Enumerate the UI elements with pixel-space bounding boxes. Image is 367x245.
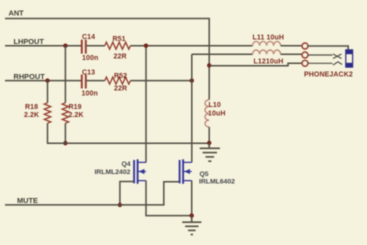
wire L12 to pin2 bbox=[281, 53, 302, 56]
wire R19 to rail bbox=[64, 123, 66, 143]
wire Q5 drain column vertical bbox=[191, 54, 193, 162]
wire Q5 source down bbox=[191, 181, 193, 216]
svg-text:100n: 100n bbox=[82, 91, 98, 98]
node junction dot sources/ground bbox=[190, 213, 194, 217]
svg-text:R52: R52 bbox=[114, 73, 127, 80]
wire L10 bottom to ground junction bbox=[208, 127, 210, 143]
svg-text:R19: R19 bbox=[69, 104, 82, 111]
wire pin2 switch contact bbox=[308, 54, 342, 59]
svg-text:22R: 22R bbox=[114, 85, 127, 92]
wire RHPOUT to C13 bbox=[5, 80, 81, 82]
svg-text:2.2K: 2.2K bbox=[24, 112, 39, 119]
wire Q4 source to ground junction bbox=[146, 162, 192, 215]
wire ANT horizontal + vertical down to L10 bbox=[5, 19, 209, 100]
svg-text:RHPOUT: RHPOUT bbox=[14, 72, 46, 81]
svg-text:Q4: Q4 bbox=[122, 161, 131, 168]
node junction dot LHPOUT/R19 bbox=[63, 44, 67, 48]
transistor Q4 IRLML2402 bbox=[95, 159, 147, 184]
resistor R51 bbox=[105, 42, 131, 49]
node junction dot MUTE/Q4 gate bbox=[118, 203, 122, 207]
node junction dot R19/rail bbox=[63, 141, 67, 145]
node junction dot rail/L10/ground bbox=[207, 141, 211, 145]
svg-text:L10: L10 bbox=[209, 102, 221, 109]
capacitor C13 bbox=[82, 75, 86, 89]
svg-text:L11 10uH: L11 10uH bbox=[253, 35, 285, 42]
svg-text:IRLML2402: IRLML2402 bbox=[95, 169, 131, 176]
ground under L10 bbox=[200, 143, 220, 161]
wire Q4 drain column from LHPOUT bbox=[145, 46, 147, 163]
wire Q4 gate lead to MUTE bbox=[120, 182, 134, 205]
node junction dot on ANT vertical at sleeve wire bbox=[207, 63, 211, 67]
wire LHPOUT down to R19 bbox=[64, 46, 66, 103]
svg-text:22R: 22R bbox=[114, 53, 127, 60]
svg-text:L1210uH: L1210uH bbox=[254, 59, 284, 66]
wire L11 to pin1 bbox=[281, 45, 302, 47]
svg-text:2.2K: 2.2K bbox=[69, 112, 84, 119]
svg-text:Q5: Q5 bbox=[200, 171, 209, 178]
wire R52 to Q5 drain column bbox=[130, 80, 191, 82]
phone jack PHONEJACK2 plug bar bbox=[346, 50, 353, 67]
svg-text:R18: R18 bbox=[25, 104, 38, 111]
wire C13 to R52 bbox=[87, 80, 105, 82]
wire C14 to R51 bbox=[87, 45, 105, 47]
capacitor C14 bbox=[82, 40, 86, 54]
wire R51 to L11 bbox=[130, 45, 252, 47]
resistor R52 bbox=[105, 77, 131, 84]
resistor R19 bbox=[62, 103, 68, 123]
wire pin3 switch contact bbox=[308, 62, 342, 65]
node junction dot LHPOUT/Q4 bbox=[144, 44, 148, 48]
inductor L10 coil bbox=[205, 100, 209, 127]
inductor L11 coil bbox=[253, 41, 281, 45]
svg-text:LHPOUT: LHPOUT bbox=[14, 37, 45, 46]
svg-text:100n: 100n bbox=[82, 55, 98, 62]
wire LHPOUT to C14 bbox=[5, 45, 81, 47]
connector pin 1 bbox=[302, 43, 308, 49]
wire RHPOUT down to R18 bbox=[47, 81, 49, 103]
connector pin 3 bbox=[302, 60, 308, 66]
transistor Q5 IRLML6402 bbox=[180, 159, 236, 185]
svg-text:C14: C14 bbox=[82, 34, 95, 41]
node junction dot RHPOUT/R18 bbox=[45, 78, 49, 82]
svg-text:PHONEJACK2: PHONEJACK2 bbox=[304, 72, 353, 79]
wire pin1 to jack tip bbox=[308, 46, 348, 50]
svg-text:C13: C13 bbox=[82, 70, 95, 77]
ground under Q4/Q5 sources bbox=[182, 216, 201, 235]
svg-text:ANT: ANT bbox=[9, 8, 25, 17]
connector pin 2 bbox=[302, 52, 308, 58]
inductor L12 coil bbox=[253, 50, 281, 54]
svg-text:IRLML6402: IRLML6402 bbox=[199, 179, 235, 186]
wire sleeve line to jack pin 3 bbox=[209, 63, 302, 66]
wire R18 to rail and rail to ground junction bbox=[48, 123, 210, 143]
wire L12 net: corner from Q5 column to L12 coil bbox=[192, 53, 253, 55]
node junction dot RHPOUT column bbox=[190, 78, 194, 82]
wire MUTE line and route to Q5 gate bbox=[5, 182, 179, 205]
svg-text:MUTE: MUTE bbox=[17, 196, 38, 205]
svg-text:R51: R51 bbox=[113, 36, 126, 43]
svg-text:10uH: 10uH bbox=[208, 110, 226, 117]
resistor R18 bbox=[44, 103, 50, 123]
